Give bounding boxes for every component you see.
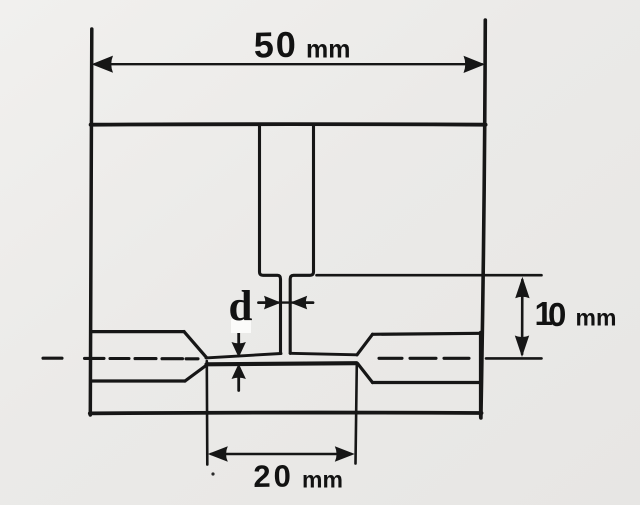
20mm right arrowhead — [335, 446, 355, 462]
web thickness lower arrow tail — [237, 377, 240, 391]
50mm right arrowhead — [464, 56, 486, 73]
50mm dimension line — [95, 63, 482, 65]
web thickness lower arrowhead (points up) — [232, 364, 246, 380]
extension line from slot bottom to 10mm dimension — [317, 274, 542, 277]
extension line from centreline to 10mm dimension — [486, 357, 542, 360]
svg-text:0: 0 — [548, 296, 566, 333]
white correction patch under letter d — [231, 319, 251, 333]
d dimension right arrow tail — [303, 301, 314, 304]
web bottom line (thick, full span) — [207, 363, 357, 364]
svg-text:20: 20 — [253, 458, 294, 494]
specimen outline: bottom edge — [90, 411, 482, 416]
10mm dimension line — [521, 280, 524, 354]
wide slot right wall with jog into narrow slit — [290, 126, 313, 353]
svg-text:mm: mm — [576, 305, 617, 331]
right tab top taper — [357, 334, 373, 355]
d right arrowhead — [290, 296, 307, 310]
20mm dimension line — [211, 453, 351, 455]
web thickness upper arrow tail — [237, 326, 240, 345]
d left arrowhead — [264, 296, 281, 310]
left tab bottom edge — [91, 379, 185, 382]
10mm top arrowhead — [515, 277, 529, 299]
web thickness upper arrowhead (points down) — [232, 342, 246, 358]
50mm left arrowhead — [92, 56, 114, 73]
svg-text:d: d — [229, 283, 253, 330]
d dimension line crossing slit — [277, 301, 295, 303]
left tab bottom taper — [185, 364, 208, 381]
20mm dimension right extension line — [356, 364, 357, 464]
right tab bottom edge — [373, 381, 481, 384]
right tab right edge (overlaps main edge) — [479, 333, 483, 418]
20mm left arrowhead — [208, 446, 228, 462]
ink speck — [211, 472, 214, 475]
specimen outline: left vertical edge — [90, 29, 92, 415]
svg-text:mm: mm — [306, 36, 350, 64]
right tab bottom taper — [358, 363, 373, 382]
specimen outline: top edge — [91, 122, 486, 126]
centreline dashed, right part — [379, 357, 469, 360]
20mm dimension left extension line — [206, 361, 209, 465]
centreline dashed, left part — [43, 357, 198, 361]
left reduced-section tab top edge — [92, 330, 185, 333]
svg-text:mm: mm — [302, 467, 343, 493]
wide slot left wall with jog into narrow slit — [260, 126, 281, 353]
left tab top taper — [184, 332, 207, 358]
specimen outline: right vertical edge — [481, 20, 485, 418]
10mm bottom arrowhead — [515, 336, 529, 358]
right web top line — [290, 353, 357, 355]
left web top line — [206, 354, 281, 358]
svg-text:50: 50 — [253, 24, 298, 66]
d dimension left arrow tail — [259, 301, 270, 304]
right tab top edge — [373, 333, 481, 334]
